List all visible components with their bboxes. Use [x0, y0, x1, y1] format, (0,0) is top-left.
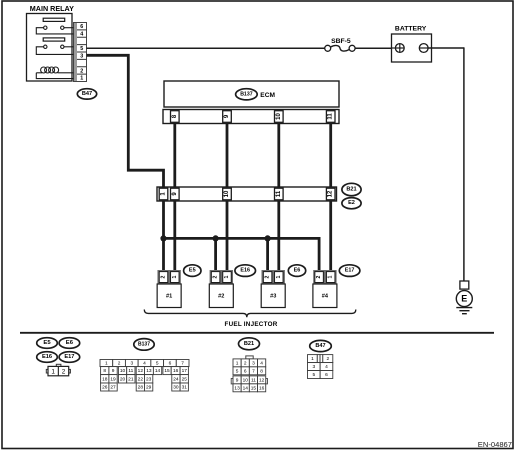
svg-text:1: 1: [172, 276, 178, 279]
svg-text:1: 1: [105, 361, 108, 367]
svg-text:B47: B47: [315, 343, 325, 349]
svg-text:29: 29: [146, 385, 152, 391]
svg-text:5: 5: [312, 372, 315, 378]
svg-text:12: 12: [328, 190, 334, 197]
svg-text:B21: B21: [244, 341, 254, 347]
svg-text:1: 1: [80, 76, 83, 82]
svg-text:6: 6: [325, 372, 328, 378]
svg-text:20: 20: [120, 376, 126, 382]
svg-text:11: 11: [251, 377, 256, 383]
svg-text:2: 2: [161, 276, 167, 279]
svg-text:#2: #2: [218, 294, 224, 300]
svg-text:25: 25: [182, 376, 188, 382]
svg-text:11: 11: [276, 190, 282, 197]
svg-text:12: 12: [138, 368, 144, 374]
svg-text:4: 4: [80, 31, 83, 37]
svg-text:3: 3: [252, 360, 255, 366]
svg-text:16: 16: [259, 385, 265, 391]
svg-text:23: 23: [146, 376, 152, 382]
svg-text:E6: E6: [294, 268, 301, 274]
svg-text:4: 4: [260, 360, 263, 366]
svg-text:15: 15: [164, 368, 170, 374]
svg-text:12: 12: [259, 377, 265, 383]
svg-text:B47: B47: [82, 91, 92, 97]
svg-text:10: 10: [243, 377, 249, 383]
svg-text:6: 6: [169, 361, 172, 367]
svg-text:2: 2: [244, 360, 247, 366]
svg-text:2: 2: [326, 356, 329, 362]
svg-text:6: 6: [244, 368, 247, 374]
svg-text:EN-04867: EN-04867: [478, 440, 512, 449]
svg-text:30: 30: [173, 385, 179, 391]
svg-text:1: 1: [224, 276, 230, 279]
svg-text:E16: E16: [42, 354, 52, 360]
svg-text:10: 10: [276, 113, 282, 120]
svg-text:3: 3: [80, 54, 83, 60]
svg-text:3: 3: [312, 364, 315, 370]
svg-text:9: 9: [236, 377, 239, 383]
svg-text:13: 13: [146, 368, 152, 374]
svg-text:E2: E2: [348, 200, 355, 206]
svg-text:18: 18: [102, 376, 108, 382]
svg-text:E5: E5: [189, 268, 196, 274]
svg-text:E: E: [461, 294, 467, 304]
svg-text:31: 31: [182, 385, 188, 391]
svg-text:14: 14: [243, 385, 249, 391]
svg-text:1: 1: [51, 369, 55, 376]
svg-text:27: 27: [110, 385, 116, 391]
svg-text:6: 6: [80, 24, 83, 30]
svg-text:17: 17: [182, 368, 188, 374]
svg-text:1: 1: [236, 360, 239, 366]
svg-text:1: 1: [311, 356, 314, 362]
svg-text:7: 7: [252, 368, 255, 374]
svg-text:13: 13: [234, 385, 240, 391]
svg-text:#4: #4: [322, 294, 329, 300]
svg-text:E5: E5: [43, 340, 51, 346]
svg-text:2: 2: [62, 369, 66, 376]
svg-text:11: 11: [328, 113, 334, 120]
svg-text:E16: E16: [240, 268, 250, 274]
svg-text:BATTERY: BATTERY: [395, 25, 427, 32]
svg-text:#1: #1: [166, 294, 172, 300]
svg-text:ECM: ECM: [260, 92, 275, 99]
svg-text:E17: E17: [64, 354, 74, 360]
svg-text:5: 5: [236, 368, 239, 374]
svg-text:24: 24: [173, 376, 179, 382]
svg-text:16: 16: [173, 368, 179, 374]
svg-text:8: 8: [260, 368, 263, 374]
svg-text:26: 26: [102, 385, 108, 391]
svg-text:28: 28: [138, 385, 144, 391]
svg-text:15: 15: [251, 385, 257, 391]
svg-text:5: 5: [156, 361, 159, 367]
svg-text:4: 4: [325, 364, 328, 370]
svg-text:MAIN RELAY: MAIN RELAY: [30, 4, 74, 13]
svg-text:22: 22: [138, 376, 144, 382]
svg-text:5: 5: [80, 46, 83, 52]
svg-text:B137: B137: [240, 91, 253, 97]
svg-text:E6: E6: [66, 340, 74, 346]
svg-text:1: 1: [276, 276, 282, 279]
svg-text:2: 2: [118, 361, 121, 367]
svg-text:3: 3: [130, 361, 133, 367]
svg-text:FUEL INJECTOR: FUEL INJECTOR: [224, 321, 277, 328]
svg-text:SBF-5: SBF-5: [331, 38, 351, 45]
svg-text:10: 10: [224, 190, 230, 197]
svg-text:#3: #3: [270, 294, 276, 300]
svg-text:B21: B21: [346, 187, 356, 193]
svg-text:2: 2: [80, 68, 83, 74]
svg-text:9: 9: [112, 368, 115, 374]
svg-text:B137: B137: [138, 341, 150, 347]
svg-text:8: 8: [103, 368, 106, 374]
svg-text:10: 10: [120, 368, 126, 374]
svg-text:2: 2: [213, 276, 219, 279]
svg-text:2: 2: [316, 276, 322, 279]
svg-text:14: 14: [155, 368, 161, 374]
svg-text:E17: E17: [345, 268, 355, 274]
svg-text:1: 1: [328, 276, 334, 279]
svg-text:21: 21: [128, 376, 134, 382]
svg-text:11: 11: [128, 368, 133, 374]
svg-text:19: 19: [110, 376, 116, 382]
svg-text:7: 7: [181, 361, 184, 367]
svg-text:4: 4: [143, 361, 146, 367]
svg-text:2: 2: [265, 276, 271, 279]
